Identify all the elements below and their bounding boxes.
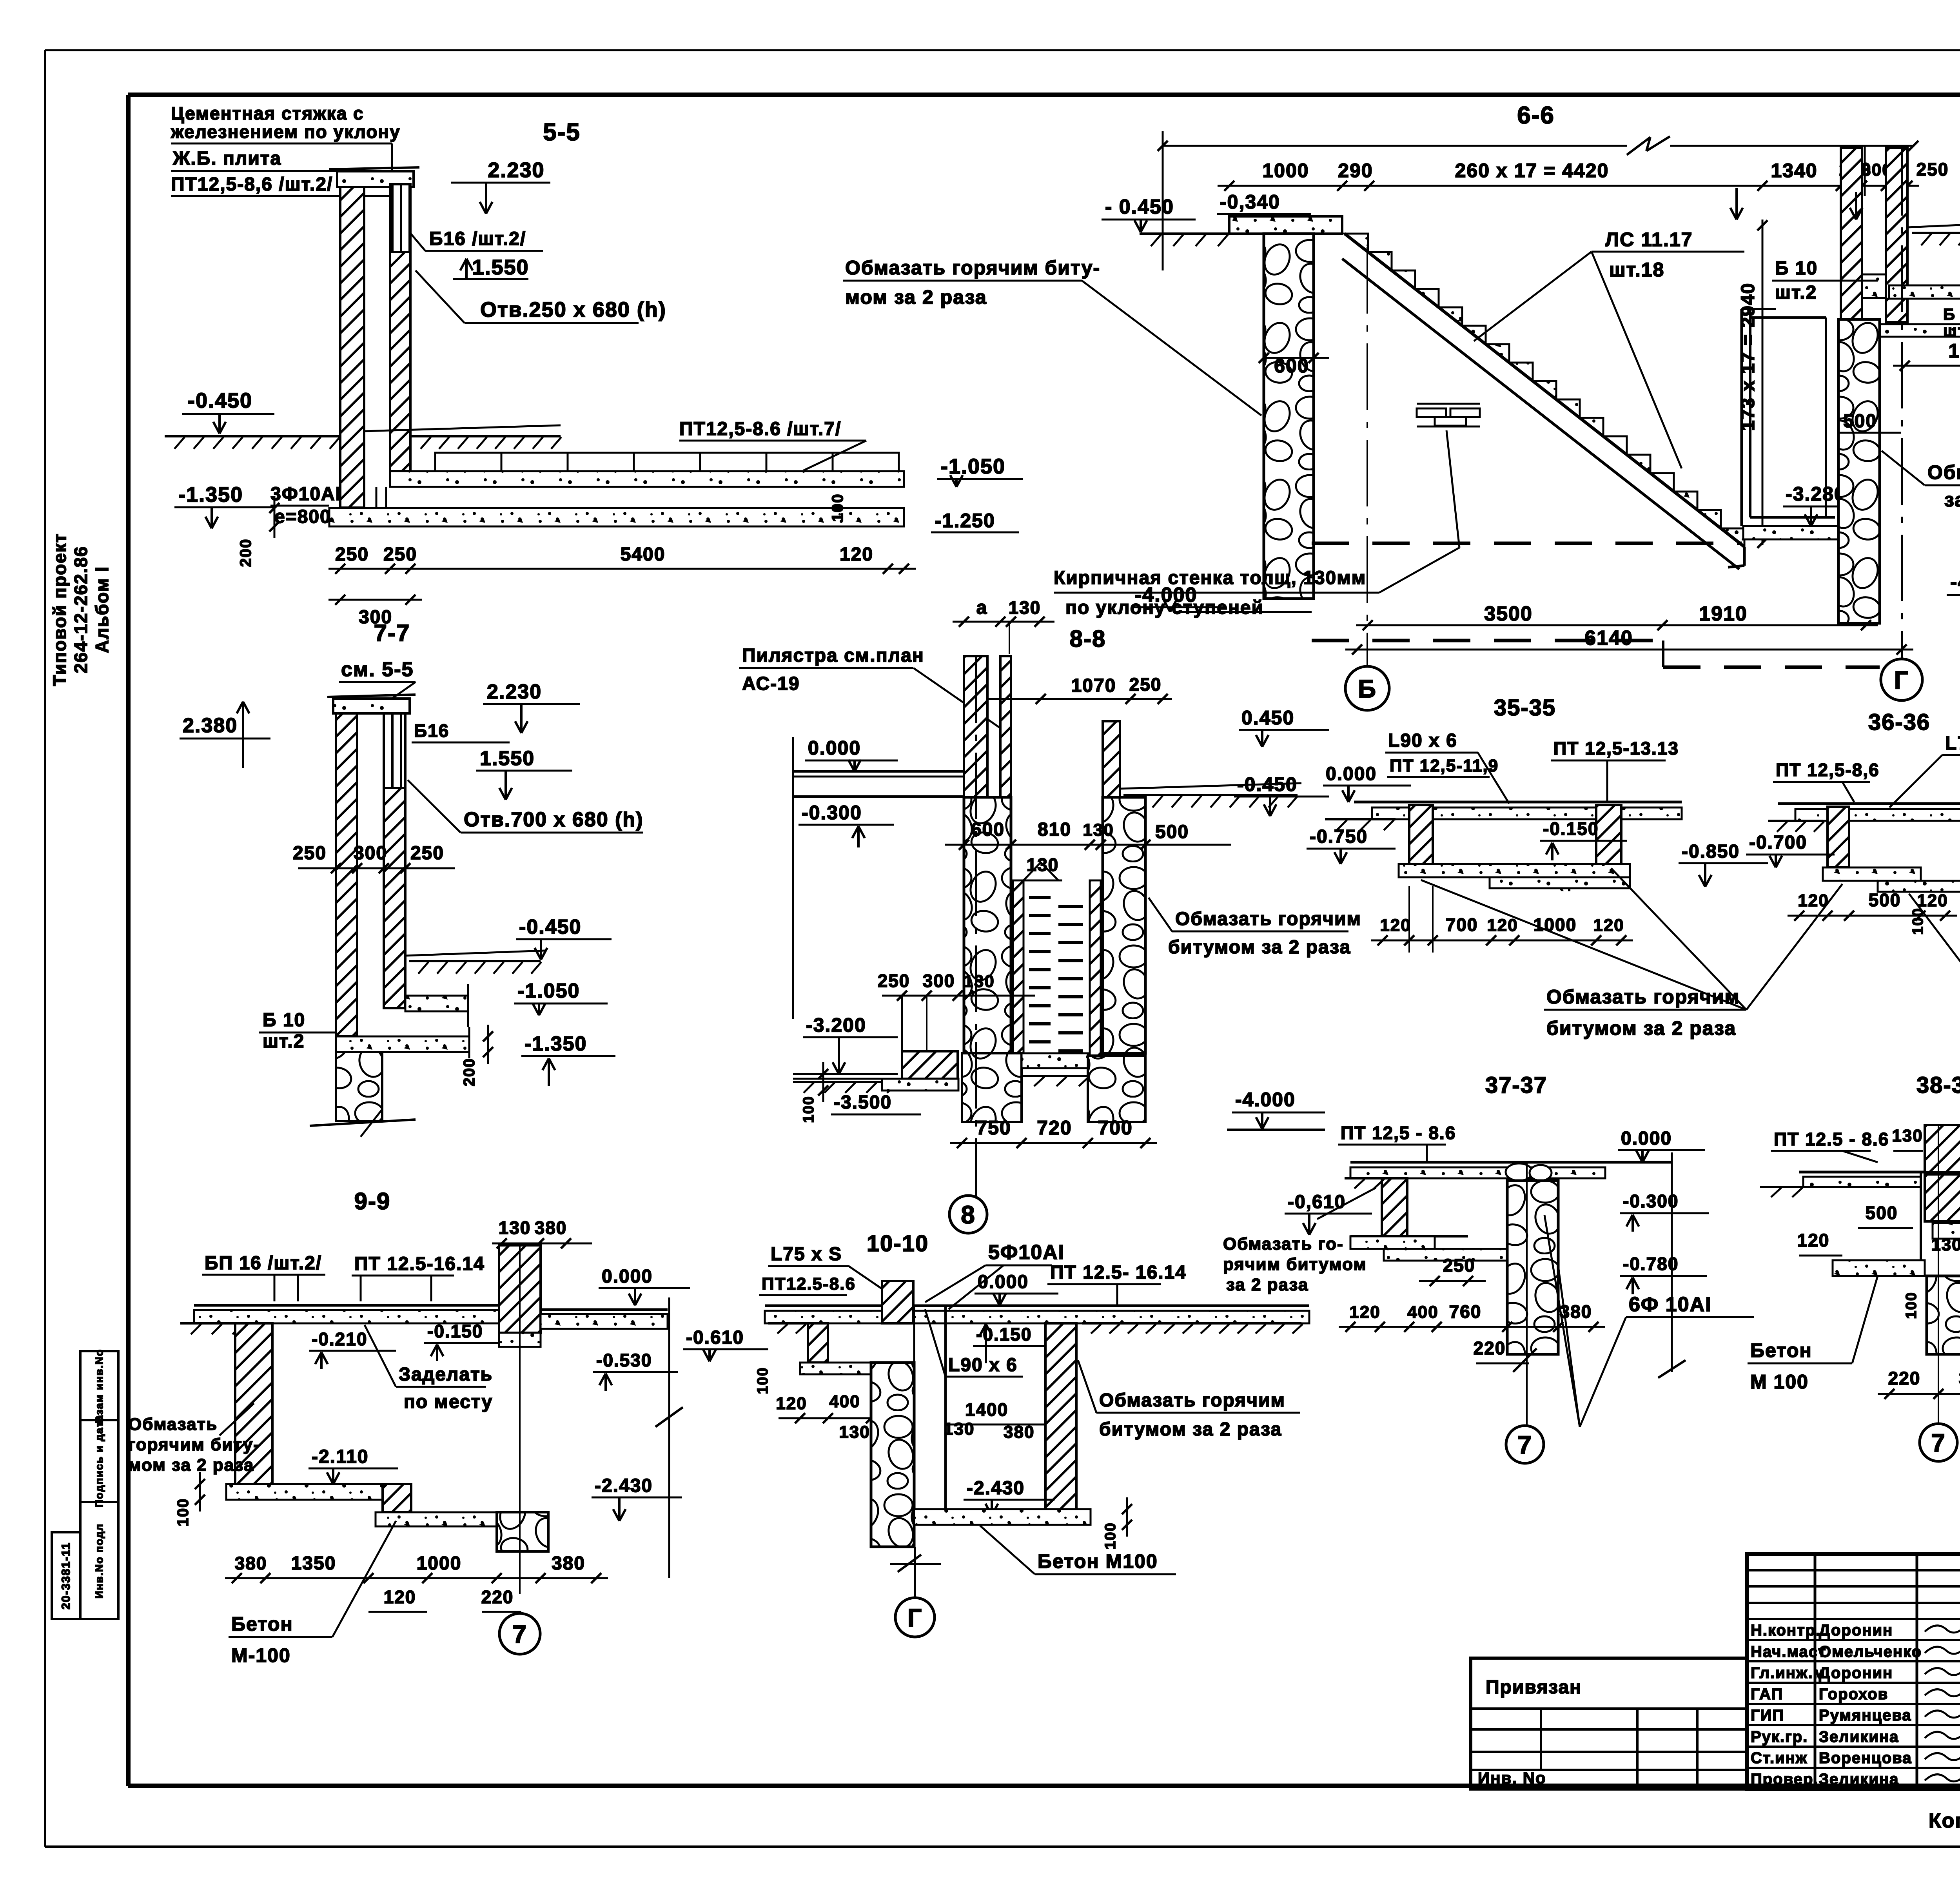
outer page border — [45, 49, 1960, 51]
svg-text:Подпись и дата: Подпись и дата — [93, 1414, 105, 1507]
svg-text:120: 120 — [1798, 891, 1829, 910]
svg-text:Ст.инж: Ст.инж — [1751, 1749, 1808, 1767]
svg-text:6140: 6140 — [1584, 627, 1633, 650]
svg-text:e=800: e=800 — [274, 506, 331, 527]
svg-text:Инв. No: Инв. No — [1478, 1769, 1546, 1787]
svg-text:380: 380 — [1959, 1368, 1960, 1388]
svg-text:Обмазать горячим битумом: Обмазать горячим битумом — [1927, 461, 1960, 483]
svg-text:-0.450: -0.450 — [519, 916, 581, 938]
8-8 right small wall — [1103, 721, 1120, 797]
svg-text:250: 250 — [410, 843, 444, 864]
svg-text:Кирпичная стенка толщ, 130мм: Кирпичная стенка толщ, 130мм — [1054, 568, 1366, 588]
9-9 center wall — [499, 1245, 541, 1333]
svg-text:-0.530: -0.530 — [596, 1350, 652, 1370]
9-9 lower slab — [226, 1484, 383, 1500]
svg-text:за 2 раза: за 2 раза — [1944, 489, 1960, 511]
37-37 slab — [1350, 1161, 1672, 1164]
svg-text:-1.350: -1.350 — [524, 1032, 587, 1055]
svg-text:ПТ 12.5- 16.14: ПТ 12.5- 16.14 — [1050, 1262, 1187, 1283]
svg-text:500: 500 — [1866, 1203, 1898, 1223]
6-6 dashed floor lines — [1312, 542, 1742, 545]
37-37 axis + circle 7 — [1526, 1162, 1528, 1427]
7-7 top cap — [333, 699, 410, 713]
svg-text:120: 120 — [1593, 916, 1624, 935]
35-35 dims — [1371, 940, 1633, 942]
svg-text:250: 250 — [1443, 1255, 1475, 1276]
9-9 axis + circle 7 — [519, 1245, 521, 1594]
svg-text:35-35: 35-35 — [1494, 695, 1556, 720]
6-6 lower slab — [1845, 324, 1960, 337]
svg-text:500: 500 — [1869, 890, 1901, 910]
svg-text:Обмазать горячим: Обмазать горячим — [1175, 909, 1361, 929]
svg-text:Копировал: Копировал — [1929, 1809, 1960, 1832]
svg-text:-2.110: -2.110 — [312, 1446, 368, 1467]
5-5 floor plate row — [435, 453, 501, 471]
svg-text:-4.000: -4.000 — [1235, 1089, 1296, 1110]
svg-text:260 х 17 = 4420: 260 х 17 = 4420 — [1455, 160, 1609, 181]
svg-text:100: 100 — [174, 1498, 192, 1527]
7-7 left wall — [336, 713, 357, 1036]
8-8 bottom dims 750 720 700 — [950, 1142, 1157, 1144]
svg-text:130: 130 — [839, 1423, 870, 1442]
svg-text:6-6: 6-6 — [1517, 102, 1555, 129]
7-7 dims 250 300 250 — [298, 867, 455, 869]
7-7 right wall — [384, 713, 405, 788]
svg-text:см. 5-5: см. 5-5 — [341, 658, 414, 681]
8-8 bottom left pier — [902, 1051, 958, 1079]
svg-text:750: 750 — [976, 1117, 1011, 1139]
svg-text:250: 250 — [383, 544, 417, 565]
svg-text:Н.контр.: Н.контр. — [1751, 1622, 1821, 1639]
svg-text:Отв.700 х 680 (h): Отв.700 х 680 (h) — [464, 808, 644, 831]
svg-text:-0.300: -0.300 — [1623, 1191, 1679, 1211]
35-35 slab — [1354, 801, 1682, 804]
svg-text:130: 130 — [944, 1419, 975, 1439]
svg-text:ПТ12.5-8.6: ПТ12.5-8.6 — [762, 1274, 856, 1294]
10-10 axis + circle Г — [914, 1547, 916, 1598]
6-6 pit walls — [1740, 309, 1743, 526]
svg-text:120: 120 — [776, 1394, 807, 1413]
axis circle Г — [1881, 659, 1922, 700]
5-5 right wall with vent block — [390, 184, 410, 252]
svg-text:рячим битумом: рячим битумом — [1223, 1255, 1367, 1274]
svg-text:Б 10: Б 10 — [1775, 258, 1818, 279]
8-8 vent channel — [1013, 880, 1024, 1056]
37-37 right ref line — [1671, 1152, 1673, 1372]
svg-text:-0.780: -0.780 — [1623, 1254, 1679, 1274]
svg-text:L75 х 5: L75 х 5 — [1945, 733, 1960, 754]
svg-text:2.380: 2.380 — [183, 714, 238, 737]
svg-text:250: 250 — [878, 971, 910, 991]
svg-text:130: 130 — [499, 1218, 531, 1238]
svg-text:1000: 1000 — [1262, 160, 1309, 181]
svg-text:-0.150: -0.150 — [1543, 818, 1599, 839]
svg-text:120: 120 — [1487, 916, 1518, 935]
svg-text:250: 250 — [335, 544, 369, 565]
svg-text:Бетон М100: Бетон М100 — [1038, 1550, 1158, 1572]
svg-text:а: а — [976, 597, 988, 618]
svg-text:Типовой проект: Типовой проект — [49, 533, 70, 686]
svg-text:L90 х 6: L90 х 6 — [1388, 730, 1457, 751]
svg-text:220: 220 — [1888, 1368, 1921, 1388]
svg-text:Б 10: Б 10 — [1943, 305, 1960, 323]
svg-text:Бетон: Бетон — [231, 1613, 293, 1635]
svg-text:-0.610: -0.610 — [686, 1327, 744, 1348]
svg-text:130: 130 — [1009, 597, 1041, 618]
svg-text:380: 380 — [235, 1553, 267, 1573]
svg-text:760: 760 — [1449, 1301, 1482, 1322]
svg-text:0.000: 0.000 — [1326, 764, 1377, 784]
8-8 pilaster — [964, 656, 987, 797]
svg-text:120: 120 — [384, 1587, 416, 1607]
svg-text:1000: 1000 — [1534, 915, 1577, 935]
10-10 slab — [765, 1305, 1309, 1307]
6-6 dims row — [1218, 185, 1919, 187]
svg-text:битумом за 2 раза: битумом за 2 раза — [1168, 937, 1351, 958]
8-8 dims 1070 250 — [988, 698, 1172, 700]
svg-text:шт.2: шт.2 — [1943, 321, 1960, 340]
svg-text:шт.2: шт.2 — [263, 1031, 305, 1052]
svg-text:120: 120 — [1917, 891, 1948, 910]
svg-text:-1.250: -1.250 — [935, 510, 995, 532]
5-5 floor slab — [390, 471, 904, 487]
svg-text:-1.050: -1.050 — [941, 455, 1005, 478]
37-37 lower floor steps — [1350, 1235, 1468, 1238]
svg-text:1.550: 1.550 — [480, 747, 535, 770]
svg-text:380: 380 — [1004, 1423, 1034, 1442]
svg-text:Заделать: Заделать — [399, 1364, 493, 1385]
svg-text:6Ф 10АІ: 6Ф 10АІ — [1629, 1293, 1712, 1316]
svg-text:Б16 /шт.2/: Б16 /шт.2/ — [429, 229, 526, 249]
svg-text:290: 290 — [1338, 160, 1373, 181]
svg-text:битумом за 2 раза: битумом за 2 раза — [1546, 1017, 1736, 1039]
10-10 hatched pier above — [882, 1281, 913, 1323]
svg-text:100: 100 — [800, 1096, 817, 1123]
svg-text:36-36: 36-36 — [1868, 709, 1930, 735]
svg-text:-0.750: -0.750 — [1310, 826, 1368, 847]
svg-text:5Ф10АІ: 5Ф10АІ — [988, 1241, 1065, 1264]
svg-text:Г: Г — [1894, 666, 1909, 694]
svg-text:300: 300 — [923, 971, 955, 991]
left margin cells — [80, 1351, 118, 1619]
svg-text:220: 220 — [481, 1587, 514, 1607]
svg-text:М-100: М-100 — [231, 1644, 291, 1666]
svg-text:1.550: 1.550 — [472, 256, 529, 279]
svg-text:9-9: 9-9 — [354, 1188, 391, 1214]
svg-text:100: 100 — [829, 494, 846, 522]
svg-text:мом за 2 раза: мом за 2 раза — [845, 286, 987, 308]
svg-text:Доронин: Доронин — [1819, 1622, 1893, 1639]
10-10 bottom slab — [914, 1509, 1091, 1525]
svg-text:за 2 раза: за 2 раза — [1226, 1275, 1308, 1294]
svg-text:-3.200: -3.200 — [806, 1014, 866, 1036]
10-10 left pier — [808, 1323, 828, 1363]
svg-text:2.230: 2.230 — [487, 680, 542, 703]
svg-text:Зеликина: Зеликина — [1819, 1728, 1899, 1746]
svg-text:250: 250 — [1129, 674, 1162, 695]
35-35 piers — [1409, 805, 1433, 866]
svg-text:Доронин: Доронин — [1819, 1664, 1893, 1682]
svg-text:38-38: 38-38 — [1916, 1072, 1960, 1098]
svg-text:Бетон: Бетон — [1750, 1339, 1812, 1361]
svg-text:ПТ 12,5-8,6: ПТ 12,5-8,6 — [1776, 760, 1880, 780]
6-6 ground right — [1912, 232, 1960, 234]
svg-text:120: 120 — [1349, 1303, 1380, 1322]
6-6 dims 1300 800 120 — [1893, 365, 1960, 367]
svg-text:-0,340: -0,340 — [1220, 191, 1280, 213]
svg-text:200: 200 — [237, 539, 254, 567]
svg-text:Инв.No подл: Инв.No подл — [93, 1523, 105, 1599]
svg-text:Горохов: Горохов — [1819, 1686, 1888, 1703]
6-6 bottom dims — [1356, 624, 1878, 626]
37-37 left pier — [1382, 1178, 1407, 1236]
38-38 bottom strip — [1833, 1260, 1925, 1276]
svg-text:битумом за 2 раза: битумом за 2 раза — [1099, 1419, 1282, 1440]
title block — [1747, 1554, 1960, 1789]
svg-text:Взам инв.No: Взам инв.No — [93, 1349, 105, 1423]
svg-text:100: 100 — [755, 1367, 771, 1394]
6-6 axis center line — [1367, 247, 1368, 665]
svg-text:Отв.250 х 680 (h): Отв.250 х 680 (h) — [480, 298, 666, 321]
svg-text:1910: 1910 — [1699, 602, 1748, 625]
inner drawing frame — [128, 93, 1960, 97]
37-37 dims — [1339, 1326, 1605, 1328]
svg-text:3Ф10АІ: 3Ф10АІ — [270, 484, 341, 504]
svg-text:100: 100 — [1102, 1522, 1119, 1549]
svg-text:L90 х 6: L90 х 6 — [948, 1355, 1018, 1375]
36-36 slab — [1778, 802, 1960, 805]
svg-text:130: 130 — [1892, 1126, 1923, 1145]
svg-text:М 100: М 100 — [1750, 1371, 1809, 1393]
svg-text:БП 16 /шт.2/: БП 16 /шт.2/ — [205, 1253, 322, 1274]
8-8 dims 250 300 130 — [882, 995, 1035, 997]
svg-text:Г: Г — [907, 1604, 922, 1632]
9-9 right ref vline — [668, 1297, 670, 1578]
axis circle Б — [1345, 666, 1389, 710]
svg-text:ЛС 11.17: ЛС 11.17 — [1605, 229, 1693, 250]
5-5 footing — [329, 508, 904, 526]
svg-text:-3.500: -3.500 — [834, 1092, 892, 1113]
6-6 right rubble column — [1838, 319, 1880, 623]
svg-text:- 0.450: - 0.450 — [1105, 196, 1174, 218]
svg-text:400: 400 — [1407, 1303, 1438, 1322]
svg-text:7: 7 — [1517, 1431, 1532, 1459]
svg-text:Омельченко: Омельченко — [1819, 1643, 1922, 1660]
svg-text:ПТ12,5-8.6 /шт.7/: ПТ12,5-8.6 /шт.7/ — [679, 419, 841, 439]
38-38 rubble — [1927, 1276, 1960, 1354]
svg-text:Обмазать горячим: Обмазать горячим — [1546, 986, 1740, 1008]
svg-text:по уклону ступеней: по уклону ступеней — [1065, 597, 1264, 618]
10-10 rubble column — [871, 1363, 914, 1547]
svg-text:5-5: 5-5 — [543, 119, 581, 146]
38-38 slab — [1799, 1171, 1960, 1174]
svg-text:10-10: 10-10 — [867, 1231, 929, 1256]
35-35 bottom slab — [1399, 864, 1630, 877]
svg-text:-4.300: -4.300 — [1950, 571, 1960, 593]
8-8 footings — [962, 1053, 1022, 1122]
svg-text:ПТ 12,5-11,9: ПТ 12,5-11,9 — [1390, 756, 1499, 775]
svg-text:100: 100 — [1903, 1292, 1920, 1319]
svg-text:Зеликина: Зеликина — [1819, 1771, 1899, 1788]
8-8 top dims — [953, 621, 1054, 623]
6-6 ground left — [1140, 232, 1229, 235]
svg-text:400: 400 — [829, 1392, 860, 1411]
svg-text:Ж.Б. плита: Ж.Б. плита — [172, 148, 281, 169]
svg-text:8-8: 8-8 — [1070, 626, 1106, 652]
svg-text:Румянцева: Румянцева — [1819, 1707, 1912, 1724]
svg-text:1000: 1000 — [417, 1553, 462, 1574]
8-8 dims 600 810 130 500 — [945, 844, 1231, 846]
svg-text:Б16: Б16 — [414, 720, 449, 741]
5-5 left wall — [340, 187, 364, 508]
svg-text:380: 380 — [552, 1553, 585, 1574]
svg-text:700: 700 — [1446, 915, 1478, 935]
38-38 right wall — [1920, 1172, 1922, 1260]
svg-text:Обмазать горячим биту-: Обмазать горячим биту- — [845, 257, 1100, 279]
svg-text:ПТ 12.5 - 8.6: ПТ 12.5 - 8.6 — [1774, 1129, 1889, 1149]
svg-text:Нач.маст: Нач.маст — [1751, 1643, 1827, 1660]
svg-text:ПТ 12,5 - 8.6: ПТ 12,5 - 8.6 — [1341, 1123, 1456, 1143]
38-38 axis + circle 7 — [1938, 1125, 1939, 1424]
svg-text:8: 8 — [961, 1201, 976, 1229]
svg-text:-2.430: -2.430 — [595, 1475, 653, 1496]
svg-text:0.450: 0.450 — [1241, 707, 1294, 729]
svg-text:300: 300 — [354, 843, 387, 864]
svg-text:130: 130 — [1931, 1235, 1960, 1254]
svg-text:ПТ12,5-8,6 /шт.2/: ПТ12,5-8,6 /шт.2/ — [171, 174, 333, 195]
svg-text:ГИП: ГИП — [1751, 1707, 1784, 1724]
svg-text:-2.430: -2.430 — [967, 1478, 1025, 1499]
37-37 rubble column — [1506, 1163, 1532, 1181]
6-6 right wall top — [1841, 148, 1862, 322]
7-7 footing — [336, 1036, 469, 1052]
svg-text:Обмазать го-: Обмазать го- — [1223, 1234, 1344, 1254]
svg-text:по месту: по месту — [404, 1392, 493, 1412]
svg-text:120: 120 — [1797, 1230, 1830, 1250]
svg-text:1350: 1350 — [291, 1553, 336, 1574]
svg-text:380: 380 — [1560, 1301, 1592, 1322]
svg-text:130: 130 — [1083, 820, 1114, 840]
5-5 bottom dims — [328, 568, 916, 570]
8-8 rubble columns — [964, 797, 1011, 1053]
svg-text:810: 810 — [1038, 819, 1071, 840]
svg-text:2.230: 2.230 — [488, 158, 544, 182]
svg-text:-0.850: -0.850 — [1682, 841, 1740, 862]
svg-text:7-7: 7-7 — [374, 620, 410, 646]
svg-text:720: 720 — [1037, 1117, 1072, 1139]
svg-text:250: 250 — [293, 843, 327, 864]
8-8 axis line + circle 8 — [975, 656, 977, 1196]
svg-text:-1.350: -1.350 — [178, 483, 243, 506]
6-6 brick wall symbol — [1417, 403, 1480, 405]
svg-text:Рук.гр.: Рук.гр. — [1751, 1728, 1808, 1746]
svg-text:ПТ 12.5-16.14: ПТ 12.5-16.14 — [354, 1254, 485, 1274]
9-9 bottom dims — [225, 1577, 608, 1579]
svg-text:0.000: 0.000 — [602, 1266, 653, 1287]
svg-text:1070: 1070 — [1071, 675, 1116, 696]
7-7 right floor slab — [405, 996, 468, 1011]
svg-text:Обмазать горячим: Обмазать горячим — [1099, 1390, 1285, 1411]
svg-text:0.000: 0.000 — [808, 737, 861, 759]
svg-text:500: 500 — [1155, 822, 1189, 842]
svg-text:Пилястра см.план: Пилястра см.план — [742, 645, 924, 666]
svg-text:шт.18: шт.18 — [1609, 259, 1664, 281]
svg-text:Привязан: Привязан — [1486, 1677, 1582, 1698]
svg-text:-0.300: -0.300 — [802, 802, 862, 824]
6-6 entry pad — [1229, 216, 1342, 234]
svg-text:Б 10: Б 10 — [263, 1010, 305, 1031]
svg-text:1400: 1400 — [965, 1399, 1008, 1420]
svg-text:железнением по уклону: железнением по уклону — [171, 122, 401, 142]
svg-text:220: 220 — [1474, 1338, 1506, 1358]
svg-text:3500: 3500 — [1484, 602, 1533, 625]
svg-text:264-12-262.86: 264-12-262.86 — [71, 546, 91, 673]
svg-text:500: 500 — [1843, 411, 1877, 432]
38-38 column above/below — [1925, 1125, 1960, 1172]
svg-text:37-37: 37-37 — [1485, 1072, 1547, 1098]
svg-text:шт.2: шт.2 — [1775, 282, 1817, 303]
10-10 channel — [913, 1306, 915, 1547]
8-8 right ground — [1123, 794, 1298, 796]
36-36 dims — [1788, 915, 1957, 917]
svg-text:20-3381-11: 20-3381-11 — [60, 1542, 73, 1609]
svg-text:200: 200 — [461, 1058, 478, 1087]
svg-text:1340: 1340 — [1771, 160, 1817, 181]
svg-text:120: 120 — [840, 544, 873, 565]
6-6 staircase — [1345, 234, 1744, 547]
10-10 right wall — [1045, 1323, 1076, 1515]
9-9 rubble base — [497, 1512, 548, 1551]
svg-text:0.000: 0.000 — [1621, 1128, 1672, 1149]
svg-text:мом за 2 раза: мом за 2 раза — [128, 1455, 254, 1475]
svg-text:Альбом I: Альбом I — [92, 566, 112, 653]
7-7 rubble base — [336, 1052, 382, 1121]
9-9 left wall — [235, 1323, 272, 1485]
svg-text:Воренцова: Воренцова — [1819, 1749, 1912, 1767]
svg-text:7: 7 — [512, 1620, 527, 1648]
svg-text:Б: Б — [1358, 675, 1377, 703]
36-36 bottom slab — [1823, 867, 1921, 881]
svg-text:Провер.: Провер. — [1751, 1771, 1818, 1788]
svg-text:Обмазать: Обмазать — [128, 1415, 218, 1434]
svg-text:-0.150: -0.150 — [427, 1321, 483, 1341]
svg-text:7: 7 — [1931, 1429, 1946, 1457]
svg-text:-0.450: -0.450 — [188, 389, 252, 412]
9-9 right slab — [541, 1308, 668, 1311]
svg-text:-3.280: -3.280 — [1786, 483, 1846, 505]
privyazan block — [1471, 1658, 1747, 1789]
svg-text:ГАП: ГАП — [1751, 1686, 1783, 1703]
6-6 left rubble wall — [1264, 234, 1314, 599]
36-36 pier — [1828, 807, 1849, 867]
svg-text:-0.210: -0.210 — [312, 1329, 367, 1349]
svg-text:5400: 5400 — [621, 544, 666, 565]
svg-text:-0.700: -0.700 — [1749, 832, 1807, 853]
svg-text:250: 250 — [1916, 159, 1949, 180]
svg-text:380: 380 — [535, 1218, 567, 1238]
9-9 floor slab — [194, 1304, 509, 1307]
svg-text:700: 700 — [1098, 1117, 1132, 1139]
5-5 top cap slab — [337, 171, 414, 187]
svg-text:L75 х S: L75 х S — [771, 1244, 842, 1265]
svg-text:Цементная стяжка с: Цементная стяжка с — [171, 103, 364, 123]
6-6 overall dim line with break — [1163, 145, 1627, 147]
svg-text:горячим биту-: горячим биту- — [128, 1435, 260, 1454]
svg-text:0.000: 0.000 — [978, 1272, 1029, 1292]
svg-text:АС-19: АС-19 — [742, 673, 800, 694]
svg-text:130: 130 — [964, 972, 995, 991]
svg-text:ПТ 12,5-13.13: ПТ 12,5-13.13 — [1553, 738, 1679, 758]
